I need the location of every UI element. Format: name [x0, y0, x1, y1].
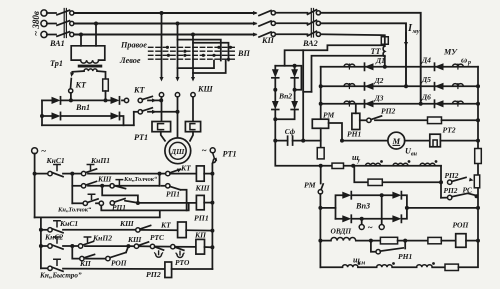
motor DSh: [165, 138, 191, 164]
wire control left vertical: [33, 154, 37, 218]
switch BA1 link: [64, 9, 66, 38]
label RM coil: [323, 111, 334, 120]
svg-text:КШ: КШ: [97, 175, 112, 184]
diode D2: [365, 83, 374, 90]
diode Vp3-4: [392, 215, 401, 222]
diode Vp1-2: [111, 97, 120, 104]
transformer TT primary: [381, 37, 388, 44]
wire VP drop 3: [192, 35, 194, 77]
wire VP drop 2: [177, 24, 179, 77]
label KSh coil: [195, 184, 210, 193]
contact RP1 hold: [162, 184, 187, 211]
svg-text:му: му: [412, 28, 420, 35]
diode Vp2-2: [291, 66, 298, 78]
svg-text:Д1: Д1: [375, 56, 385, 65]
wire RT2 to bus: [440, 139, 480, 143]
svg-text:КШ: КШ: [195, 184, 210, 193]
wire Tr1 primary feed a: [80, 35, 82, 46]
wire VP jog top a: [178, 40, 221, 61]
winding wsm3: [417, 262, 435, 267]
label wu: [352, 153, 361, 164]
label KSh c: [127, 235, 142, 244]
svg-text:Д3: Д3: [374, 94, 384, 103]
contact KT main 2: [134, 108, 178, 114]
svg-text:Сф: Сф: [285, 127, 296, 136]
contact KSh terminal 1: [159, 93, 163, 97]
label wsm: [353, 256, 365, 267]
svg-text:КП: КП: [261, 36, 275, 45]
svg-text:КнП1: КнП1: [90, 156, 110, 165]
wire KT to Vp1: [70, 93, 72, 100]
winding wu2: [393, 160, 410, 166]
label RS: [463, 186, 473, 195]
winding wsm2: [377, 262, 395, 267]
wire phase3 bus: [74, 34, 256, 36]
wire RP2 coil out: [172, 268, 213, 270]
label KSh b: [119, 219, 134, 228]
switch BA1 blade 2: [57, 21, 70, 26]
contact KT main 1: [122, 96, 161, 102]
wire return long: [35, 210, 160, 217]
wire motor lead 1 lower: [161, 132, 165, 141]
wire control bus: [211, 164, 213, 269]
wire Tr1 sec right lead: [97, 71, 106, 79]
wire M to RT2: [405, 140, 430, 142]
transformer Tr1 secondary winding: [84, 69, 97, 71]
svg-text:ВА1: ВА1: [49, 39, 65, 48]
switch BA2 terminal 2: [316, 21, 320, 25]
svg-text:~: ~: [202, 146, 207, 156]
wire Tr1 primary feed b: [95, 24, 97, 46]
diode Vp2-3: [272, 101, 279, 110]
switch BA2 blade 2: [308, 20, 317, 25]
wire RM coil out: [320, 128, 322, 147]
wire M row left: [340, 139, 388, 143]
contact RN1 bypass: [371, 239, 407, 254]
resistor wu column: [317, 148, 324, 159]
node tap VP phase1: [160, 11, 164, 15]
svg-text:Вп3: Вп3: [355, 202, 370, 211]
wire RM column upper: [320, 67, 322, 119]
wire phase2 to right drop: [321, 23, 406, 86]
label KnS1 b: [59, 219, 78, 228]
contact RP2 mid: [448, 177, 474, 184]
svg-text:M: M: [391, 136, 400, 146]
svg-text:ВА2: ВА2: [302, 39, 318, 48]
label RP2 upper: [381, 107, 396, 116]
wire Tr1 sec left lead: [72, 71, 84, 74]
diode Vp2-4: [291, 101, 298, 110]
svg-text:Правое: Правое: [120, 41, 147, 50]
svg-text:Левое: Левое: [119, 56, 141, 65]
diode Vp3-3: [336, 215, 393, 222]
svg-text:Кн„Толчок“: Кн„Толчок“: [57, 207, 92, 214]
winding row D2: [344, 84, 355, 89]
wire row D3: [319, 102, 480, 106]
wire phase2 bus: [74, 23, 256, 25]
contact KT dc lead: [69, 72, 74, 93]
transformer Tr1 yoke: [71, 46, 105, 60]
label RTO: [175, 258, 190, 267]
coil KP: [196, 239, 205, 254]
wire Imu arrow: [404, 33, 408, 47]
svg-text:КШ: КШ: [197, 85, 214, 94]
wire RP2 feeder: [439, 166, 443, 198]
svg-text:~ 380в: ~ 380в: [31, 11, 41, 36]
label RT1 heaters: [134, 133, 148, 142]
capacitor Sf: [273, 136, 303, 145]
diode D3: [365, 100, 374, 107]
label BA2: [302, 39, 318, 48]
contactor KP contact 3: [253, 32, 308, 37]
svg-text:КП: КП: [79, 259, 91, 268]
label KT upper: [75, 81, 88, 90]
wire Sf to RM column: [301, 139, 321, 143]
diode Vp3-1: [342, 192, 392, 199]
node supply terminal L1: [41, 10, 56, 16]
label VP: [237, 49, 250, 58]
contactor KP contact 1: [253, 11, 308, 16]
contact RTO: [171, 245, 196, 258]
label KT nc: [180, 163, 191, 172]
label KSh contacts: [197, 85, 214, 94]
contact KSh terminal 2: [175, 93, 179, 97]
wire VP jog bottom b: [193, 61, 226, 74]
svg-text:вн: вн: [411, 152, 418, 158]
contact RT1: [212, 153, 217, 164]
contact KT nc: [162, 169, 197, 176]
switch VP dashed row 2: [149, 50, 235, 52]
diode Vp1-1: [42, 97, 61, 104]
coil ROP: [456, 234, 466, 248]
svg-text:Д4: Д4: [421, 56, 431, 65]
svg-text:Д2: Д2: [374, 76, 384, 85]
label KnS2: [44, 233, 63, 242]
wire res row2: [354, 166, 441, 183]
label ROP aux: [111, 259, 127, 268]
wire mid link: [303, 91, 311, 93]
label ROP: [453, 221, 470, 230]
resistor OVDP row 2: [428, 237, 441, 243]
winding row D1: [344, 64, 355, 69]
coil RM: [312, 119, 328, 128]
svg-text:Вп1: Вп1: [75, 103, 90, 112]
rectifier Vp2 top bar: [275, 64, 301, 90]
label D3: [374, 94, 384, 103]
node control supply left: [32, 146, 47, 156]
resistor wu row: [332, 163, 355, 168]
resistor RS upper: [475, 149, 482, 164]
switch VP output arrows: [159, 77, 195, 82]
svg-text:РТ1: РТ1: [223, 150, 237, 159]
wire phase3 to TT drop: [321, 34, 385, 46]
wire loop bottom: [101, 203, 188, 211]
wire ballast down: [105, 91, 107, 100]
label Vp3: [355, 202, 370, 211]
svg-text:РН1: РН1: [347, 130, 362, 139]
wire Vp2 left down: [275, 141, 320, 166]
svg-text:Вп2: Вп2: [278, 92, 292, 101]
label KnS1: [46, 156, 65, 165]
svg-text:РП1: РП1: [194, 214, 209, 223]
wire right bus: [477, 67, 479, 241]
label BA1: [49, 39, 65, 48]
winding wu3: [420, 160, 437, 166]
svg-text:ω: ω: [461, 55, 467, 65]
transformer TT secondary: [383, 46, 385, 67]
label KnTolchok nc: [123, 176, 158, 183]
switch BA2 link: [311, 9, 313, 38]
switch BA1 terminal 3: [70, 32, 74, 36]
svg-text:КП: КП: [194, 231, 207, 240]
label KnBystro: [39, 272, 82, 280]
wire Vp1 left rail: [41, 100, 43, 125]
label Sf: [285, 127, 296, 136]
wire Vp1 bottom bus: [42, 124, 134, 126]
rectifier Vp3 frame: [336, 195, 407, 219]
coil RP1: [196, 195, 204, 209]
label KT coil: [160, 221, 171, 230]
svg-text:РТО: РТО: [175, 258, 190, 267]
motor M: [388, 132, 405, 149]
wire jog feeder: [72, 246, 79, 259]
svg-text:КШ: КШ: [119, 219, 134, 228]
svg-text:ДШ: ДШ: [170, 148, 185, 156]
wire OVDP row b: [398, 240, 428, 242]
wire OVDP row a: [356, 239, 381, 243]
label OVDP: [331, 227, 352, 236]
switch VP dashed row 4: [149, 58, 235, 60]
diode D1: [365, 63, 374, 70]
wire Vp2 bottom: [273, 110, 294, 141]
node Vp2 mid right: [293, 78, 297, 101]
label Tr1: [50, 59, 63, 68]
node Vp1 KT junction: [62, 98, 111, 102]
label RP1 aux: [112, 203, 126, 212]
wire KT coil out: [186, 229, 214, 233]
wire rows feeder: [39, 217, 43, 268]
label RP2 mid: [445, 171, 459, 180]
diode Vp1-3: [40, 112, 61, 119]
button KnTolchok nc: [104, 180, 159, 189]
svg-text:ОВДП: ОВДП: [331, 227, 352, 236]
switch VP contact dots: [166, 46, 232, 61]
transformer Tr1 core: [79, 65, 102, 66]
resistor RS lower: [474, 175, 479, 188]
winding MU wr3: [453, 101, 464, 106]
label RT2: [443, 126, 456, 135]
label TT: [371, 47, 382, 56]
node RP1 branch: [136, 201, 140, 205]
label Imu: [407, 23, 420, 35]
svg-text:Кн„Толчок“: Кн„Толчок“: [123, 176, 158, 183]
heater RT1 a: [152, 122, 171, 132]
transformer Tr1 primary winding: [81, 60, 99, 63]
svg-text:РМ: РМ: [323, 111, 334, 120]
label RTS: [150, 233, 164, 242]
svg-text:~: ~: [368, 223, 373, 233]
label KT contacts: [133, 86, 146, 95]
contact RP1 aux: [99, 199, 196, 206]
label D5: [421, 75, 431, 84]
wire Vp1-4 to bus: [121, 116, 124, 125]
winding row D3: [344, 101, 355, 106]
switch VP dashed row 3: [149, 54, 235, 56]
svg-text:РТ2: РТ2: [443, 126, 456, 135]
wire VP jog bottom a: [178, 61, 215, 69]
wire RP2 row right: [442, 118, 481, 122]
wire wsm b: [392, 266, 416, 268]
resistor OVDP row: [380, 237, 397, 244]
resistor wsm: [445, 264, 458, 270]
node Vp3 left tap: [318, 206, 322, 210]
switch BA2 blade 1: [308, 10, 317, 15]
node supply terminal L2: [41, 20, 56, 26]
label RP2 low: [444, 186, 458, 195]
contact KP aux: [80, 254, 106, 260]
node TT to D1: [383, 65, 387, 69]
resistor Tr1 ballast: [103, 79, 109, 91]
wire KSh coil out: [204, 172, 214, 176]
wire OVDP row d: [466, 239, 480, 243]
contact RTS: [150, 244, 170, 257]
wire phase1 bus: [74, 12, 256, 14]
wire Vp3 ac1: [359, 219, 364, 230]
button KnBystro: [41, 259, 165, 271]
heater RT2: [430, 134, 441, 147]
button KnS2: [41, 237, 74, 249]
label RM contact: [304, 181, 317, 190]
wire tolchok bypass: [102, 186, 138, 203]
wire TT top lead: [285, 45, 384, 66]
switch BA2 blade 3: [308, 31, 317, 36]
node RT1 terminal: [202, 146, 216, 156]
svg-text:РП1: РП1: [166, 190, 180, 199]
label RN1 coil: [347, 130, 362, 139]
wire Vp3 right tap: [405, 206, 480, 210]
svg-text:КШ: КШ: [127, 235, 142, 244]
diode D5: [435, 83, 444, 90]
label Vp1: [75, 103, 90, 112]
coil RP2: [165, 262, 172, 278]
switch BA1 blade 1: [57, 10, 70, 15]
svg-text:КнП2: КнП2: [92, 234, 112, 243]
winding wu1: [366, 160, 383, 166]
label RN1 contact: [398, 252, 413, 261]
label Pravoe: [120, 41, 147, 50]
label RP1 coil: [194, 214, 209, 223]
svg-text:РП2: РП2: [146, 270, 161, 279]
switch BA1 blade 3: [57, 32, 70, 37]
label Uvn: [405, 147, 418, 158]
diode Vp3-2: [392, 192, 401, 199]
svg-text:Д6: Д6: [421, 93, 431, 102]
wire Vp3 ac2: [379, 195, 384, 229]
svg-text:РН1: РН1: [398, 252, 413, 261]
wire wu row: [319, 164, 441, 168]
heater RT1 b: [185, 122, 200, 132]
wire mid column: [302, 50, 304, 140]
svg-text:КТ: КТ: [133, 86, 146, 95]
svg-text:р: р: [467, 60, 471, 66]
label KP: [261, 36, 275, 45]
diode D6: [435, 100, 444, 107]
wire wsm left: [320, 266, 342, 268]
wire Vp1 bus riser: [133, 112, 135, 125]
winding OVDP: [320, 238, 355, 241]
button KnS1 b: [41, 221, 136, 233]
button KnP2: [75, 237, 131, 248]
wire KP coil out: [205, 245, 215, 249]
wire motor lead 2: [176, 97, 180, 138]
label D6: [421, 93, 431, 102]
wire row D2: [319, 84, 480, 88]
label Vp2: [278, 92, 292, 101]
wire VP jog top b: [193, 43, 229, 61]
contact KSh terminal 3: [191, 93, 195, 97]
svg-text:РП2: РП2: [381, 107, 396, 116]
svg-text:ТТ: ТТ: [371, 47, 382, 56]
diode Vp1-4: [62, 112, 120, 119]
svg-text:Кн„Быстро”: Кн„Быстро”: [39, 272, 82, 280]
svg-text:~: ~: [41, 146, 46, 156]
coil KT: [178, 222, 187, 238]
wire OVDP row c: [441, 240, 455, 242]
wire motor lead 1 upper: [159, 97, 163, 122]
wire hold link: [158, 172, 162, 186]
wire VP drop 1: [161, 13, 163, 77]
label KnP2: [92, 234, 112, 243]
switch BA2 terminal 1: [316, 11, 320, 15]
wire motor lead 3 lower: [190, 132, 193, 141]
node Vp2 mid left: [273, 78, 277, 101]
label KnP1: [90, 156, 110, 165]
svg-text:РП2: РП2: [445, 171, 459, 180]
svg-text:КТ: КТ: [180, 163, 191, 172]
svg-text:РМ: РМ: [304, 181, 317, 190]
node tap Tr1 phase2: [94, 22, 98, 26]
winding MU wr1: [453, 64, 464, 69]
label D1: [375, 56, 385, 65]
label KP aux: [79, 259, 91, 268]
label D2: [374, 76, 384, 85]
node OVDP left: [318, 239, 322, 243]
svg-text:РТ1: РТ1: [134, 133, 148, 142]
svg-text:РОП: РОП: [111, 259, 127, 268]
button KnP1: [75, 165, 160, 176]
label KSh hold: [97, 175, 112, 184]
button KnTolchok no: [72, 194, 99, 205]
label MU: [443, 47, 458, 56]
contact RM: [318, 166, 323, 267]
winding MU wr2: [453, 84, 464, 89]
svg-text:Д5: Д5: [421, 75, 431, 84]
switch BA1 terminal 2: [70, 21, 74, 25]
winding wsm1: [342, 262, 360, 267]
svg-text:КнС1: КнС1: [46, 156, 65, 165]
label KP coil: [194, 231, 207, 240]
svg-text:МУ: МУ: [443, 47, 458, 56]
button KnS1: [37, 165, 72, 177]
contact ROP aux: [106, 246, 129, 260]
svg-text:КнС1: КнС1: [59, 219, 78, 228]
label Vp3 tilde: [368, 223, 373, 233]
contact KSh hold: [72, 181, 104, 188]
svg-text:РОП: РОП: [453, 221, 470, 230]
node tap Tr1 phase3: [79, 33, 83, 37]
diode Vp2-1: [272, 66, 279, 78]
wire wsm right: [458, 241, 478, 268]
